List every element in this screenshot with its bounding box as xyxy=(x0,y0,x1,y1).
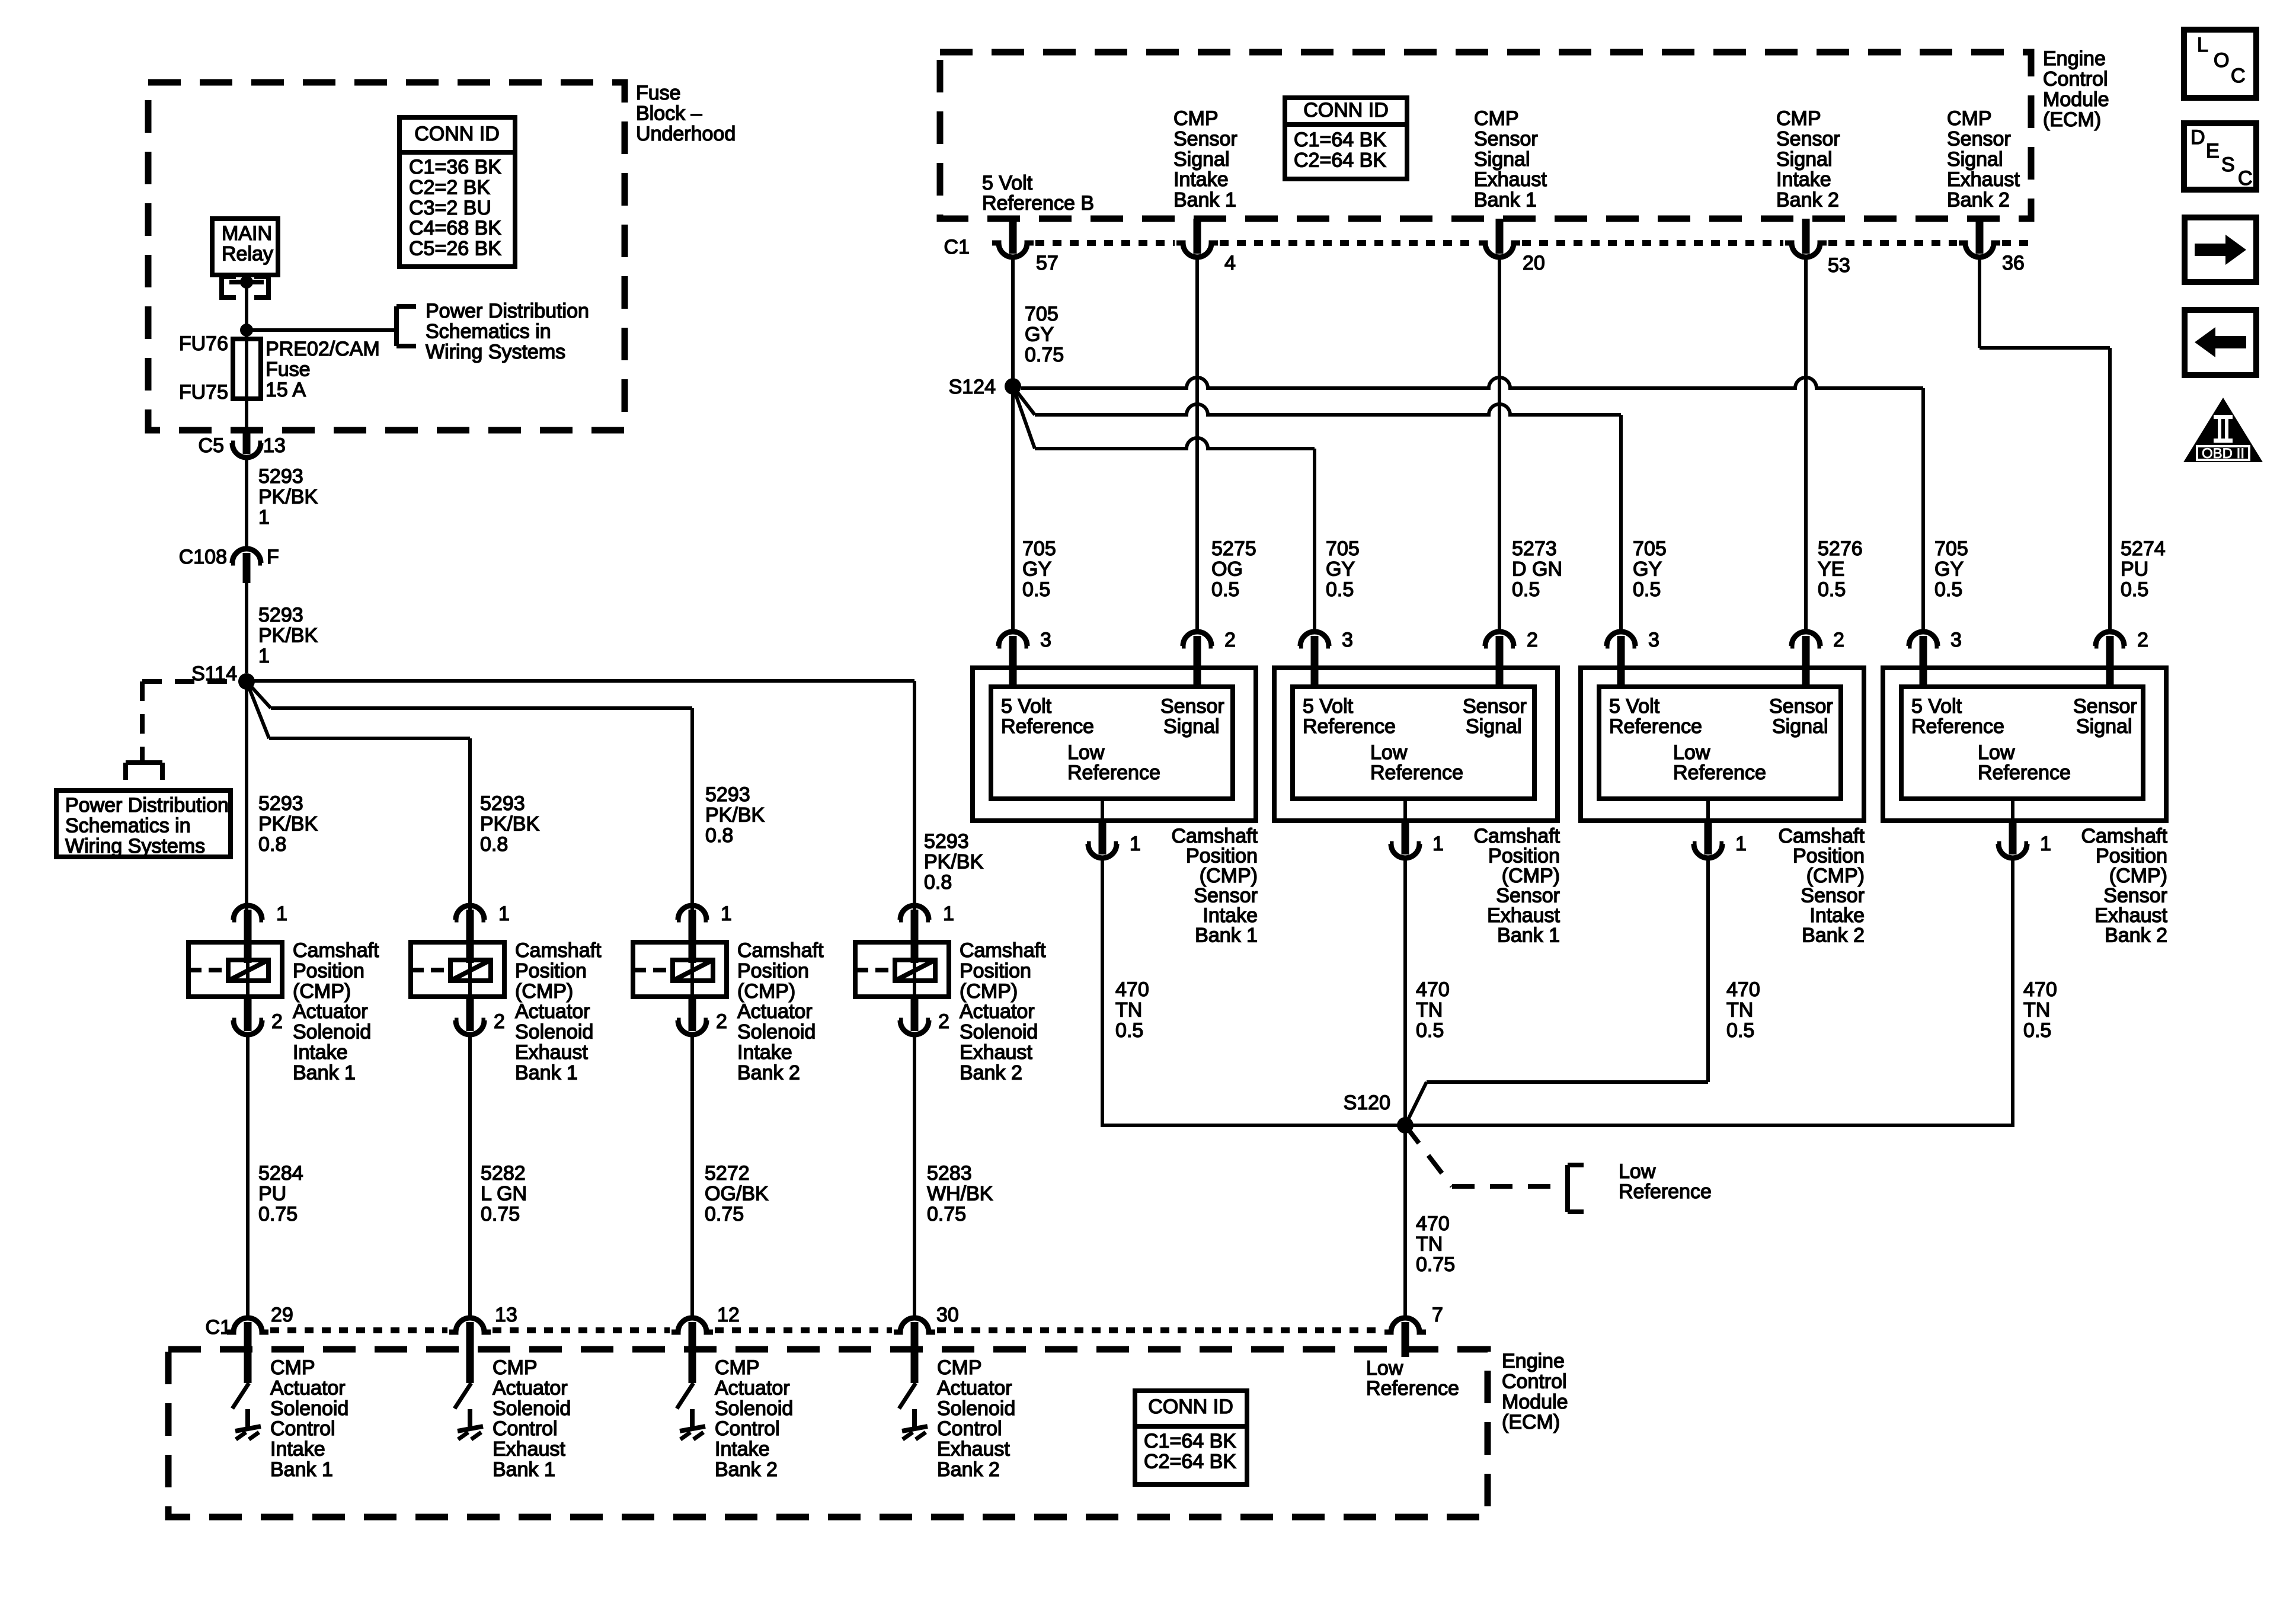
svg-text:Solenoid: Solenoid xyxy=(493,1397,571,1420)
svg-text:53: 53 xyxy=(1828,254,1850,277)
svg-text:0.8: 0.8 xyxy=(924,871,952,894)
svg-text:C1: C1 xyxy=(206,1316,231,1339)
svg-text:Sensor: Sensor xyxy=(2073,695,2137,718)
svg-text:1: 1 xyxy=(1735,833,1747,855)
svg-text:Solenoid: Solenoid xyxy=(270,1397,348,1420)
svg-text:Camshaft: Camshaft xyxy=(1172,825,1258,847)
svg-text:Solenoid: Solenoid xyxy=(715,1397,793,1420)
svg-text:5293: 5293 xyxy=(705,783,750,806)
svg-text:C4=68 BK: C4=68 BK xyxy=(409,217,501,239)
svg-text:CONN ID: CONN ID xyxy=(414,123,500,145)
svg-text:Bank 2: Bank 2 xyxy=(715,1458,778,1481)
svg-text:C108: C108 xyxy=(179,546,227,568)
svg-text:C5: C5 xyxy=(199,434,224,457)
svg-text:D: D xyxy=(2191,126,2205,149)
svg-text:Block –: Block – xyxy=(636,102,702,124)
svg-text:7: 7 xyxy=(1432,1304,1443,1326)
svg-text:Exhaust: Exhaust xyxy=(2094,904,2167,927)
svg-text:Solenoid: Solenoid xyxy=(960,1021,1038,1044)
svg-text:2: 2 xyxy=(1833,629,1844,651)
svg-text:(CMP): (CMP) xyxy=(737,980,795,1003)
svg-text:Bank 1: Bank 1 xyxy=(1497,924,1560,947)
svg-text:FU76: FU76 xyxy=(179,332,228,355)
svg-text:Bank 2: Bank 2 xyxy=(1776,189,1839,212)
svg-text:705: 705 xyxy=(1025,303,1059,325)
svg-text:Low: Low xyxy=(1673,741,1710,764)
svg-text:Actuator: Actuator xyxy=(715,1377,790,1399)
svg-text:Camshaft: Camshaft xyxy=(1779,825,1865,847)
svg-text:C1=64 BK: C1=64 BK xyxy=(1294,129,1386,151)
svg-text:Position: Position xyxy=(737,959,809,982)
svg-text:C5=26 BK: C5=26 BK xyxy=(409,238,501,260)
svg-text:1: 1 xyxy=(498,902,510,925)
svg-text:0.75: 0.75 xyxy=(481,1203,520,1225)
svg-text:1: 1 xyxy=(1432,833,1444,855)
svg-text:0.75: 0.75 xyxy=(927,1203,966,1225)
svg-text:0.5: 0.5 xyxy=(1211,578,1239,601)
svg-text:Low: Low xyxy=(1370,741,1408,764)
svg-text:GY: GY xyxy=(1022,558,1051,580)
svg-text:5 Volt: 5 Volt xyxy=(1911,695,1962,718)
svg-text:Actuator: Actuator xyxy=(293,1000,368,1023)
svg-text:Exhaust: Exhaust xyxy=(1947,168,2020,191)
svg-text:0.75: 0.75 xyxy=(1025,344,1064,366)
svg-text:2: 2 xyxy=(716,1010,727,1033)
svg-text:5 Volt: 5 Volt xyxy=(1303,695,1354,718)
svg-text:Reference: Reference xyxy=(1978,761,2071,784)
svg-text:YE: YE xyxy=(1818,558,1844,580)
svg-text:5274: 5274 xyxy=(2121,537,2166,560)
svg-text:WH/BK: WH/BK xyxy=(927,1182,993,1205)
svg-text:29: 29 xyxy=(271,1304,293,1326)
svg-text:Sensor: Sensor xyxy=(1947,127,2011,150)
svg-text:Solenoid: Solenoid xyxy=(937,1397,1015,1420)
svg-text:C2=64 BK: C2=64 BK xyxy=(1144,1450,1236,1473)
svg-text:Actuator: Actuator xyxy=(493,1377,568,1399)
svg-text:0.75: 0.75 xyxy=(258,1203,298,1225)
svg-text:Actuator: Actuator xyxy=(515,1000,590,1023)
svg-text:470: 470 xyxy=(1726,978,1760,1001)
svg-text:(ECM): (ECM) xyxy=(2043,108,2101,131)
svg-text:1: 1 xyxy=(276,902,287,925)
svg-text:5284: 5284 xyxy=(258,1162,303,1185)
svg-text:Signal: Signal xyxy=(1776,148,1833,171)
svg-text:Position: Position xyxy=(2096,845,2167,868)
svg-text:OG: OG xyxy=(1211,558,1243,580)
svg-text:Intake: Intake xyxy=(737,1041,792,1064)
svg-text:Bank 1: Bank 1 xyxy=(293,1061,356,1084)
svg-text:0.5: 0.5 xyxy=(1633,578,1661,601)
svg-text:Wiring Systems: Wiring Systems xyxy=(65,835,205,857)
svg-text:PK/BK: PK/BK xyxy=(480,812,539,835)
svg-text:C1=36 BK: C1=36 BK xyxy=(409,156,501,178)
svg-text:Intake: Intake xyxy=(293,1041,348,1064)
svg-text:3: 3 xyxy=(1040,629,1051,651)
svg-text:Sensor: Sensor xyxy=(1496,885,1560,907)
svg-text:Power Distribution: Power Distribution xyxy=(426,300,589,322)
svg-text:5282: 5282 xyxy=(481,1162,526,1185)
svg-text:470: 470 xyxy=(1115,978,1149,1001)
svg-text:Intake: Intake xyxy=(1776,168,1831,191)
svg-text:PK/BK: PK/BK xyxy=(258,485,318,508)
svg-text:PK/BK: PK/BK xyxy=(258,624,318,647)
svg-text:36: 36 xyxy=(2002,252,2025,274)
svg-text:C3=2 BU: C3=2 BU xyxy=(409,197,491,219)
svg-text:Reference: Reference xyxy=(1911,715,2004,738)
svg-text:CMP: CMP xyxy=(1776,107,1821,130)
svg-text:Intake: Intake xyxy=(1809,904,1865,927)
svg-text:Camshaft: Camshaft xyxy=(515,939,602,962)
svg-text:Fuse: Fuse xyxy=(266,358,311,380)
svg-text:GY: GY xyxy=(1934,558,1964,580)
svg-text:0.5: 0.5 xyxy=(1115,1019,1143,1042)
svg-text:Position: Position xyxy=(1186,845,1258,868)
svg-text:Bank 2: Bank 2 xyxy=(2105,924,2167,947)
svg-text:Engine: Engine xyxy=(1502,1350,1565,1372)
svg-text:Control: Control xyxy=(937,1417,1002,1440)
svg-text:Position: Position xyxy=(1488,845,1560,868)
svg-text:C: C xyxy=(2231,65,2246,87)
svg-text:Underhood: Underhood xyxy=(636,123,736,145)
svg-text:CMP: CMP xyxy=(1947,107,1992,130)
svg-text:Sensor: Sensor xyxy=(1776,127,1840,150)
svg-text:1: 1 xyxy=(1130,833,1141,855)
svg-text:5293: 5293 xyxy=(924,830,969,853)
svg-text:Intake: Intake xyxy=(270,1438,325,1461)
svg-text:Wiring Systems: Wiring Systems xyxy=(426,341,565,363)
svg-text:3: 3 xyxy=(1950,629,1962,651)
svg-text:705: 705 xyxy=(1022,537,1056,560)
svg-text:E: E xyxy=(2206,140,2220,162)
svg-text:C2=2 BK: C2=2 BK xyxy=(409,176,490,199)
svg-text:0.5: 0.5 xyxy=(1326,578,1354,601)
svg-text:0.75: 0.75 xyxy=(1416,1253,1455,1276)
svg-text:30: 30 xyxy=(936,1304,959,1326)
svg-text:Relay: Relay xyxy=(222,242,273,265)
svg-text:CMP: CMP xyxy=(937,1356,982,1379)
svg-text:0.75: 0.75 xyxy=(705,1203,744,1225)
svg-text:1: 1 xyxy=(258,645,270,667)
svg-text:Bank 2: Bank 2 xyxy=(937,1458,1000,1481)
svg-text:Schematics in: Schematics in xyxy=(65,814,191,837)
svg-text:TN: TN xyxy=(2023,998,2050,1021)
svg-text:2: 2 xyxy=(1224,629,1236,651)
svg-text:Sensor: Sensor xyxy=(2103,885,2167,907)
svg-text:(ECM): (ECM) xyxy=(1502,1411,1560,1433)
svg-text:Position: Position xyxy=(293,959,364,982)
svg-text:0.5: 0.5 xyxy=(1818,578,1846,601)
svg-text:PK/BK: PK/BK xyxy=(924,850,983,873)
svg-text:Control: Control xyxy=(1502,1370,1567,1393)
svg-text:C1: C1 xyxy=(944,236,970,258)
svg-text:Signal: Signal xyxy=(1163,715,1220,738)
svg-text:Exhaust: Exhaust xyxy=(937,1438,1010,1461)
svg-text:Actuator: Actuator xyxy=(960,1000,1035,1023)
svg-text:705: 705 xyxy=(1326,537,1360,560)
svg-text:1: 1 xyxy=(2040,833,2051,855)
svg-text:Bank 2: Bank 2 xyxy=(1947,189,2010,212)
svg-text:Reference: Reference xyxy=(1673,761,1766,784)
svg-text:0.5: 0.5 xyxy=(1726,1019,1754,1042)
svg-text:CMP: CMP xyxy=(715,1356,760,1379)
svg-text:PK/BK: PK/BK xyxy=(705,804,765,826)
svg-text:OBD II: OBD II xyxy=(2202,446,2244,462)
svg-text:5 Volt: 5 Volt xyxy=(1001,695,1052,718)
svg-text:5272: 5272 xyxy=(705,1162,750,1185)
svg-text:Exhaust: Exhaust xyxy=(1487,904,1560,927)
svg-text:5293: 5293 xyxy=(258,792,303,815)
svg-text:Camshaft: Camshaft xyxy=(960,939,1046,962)
svg-text:Control: Control xyxy=(715,1417,780,1440)
svg-text:Bank 1: Bank 1 xyxy=(1474,189,1537,212)
svg-text:470: 470 xyxy=(1416,1212,1450,1235)
svg-text:Reference: Reference xyxy=(1370,761,1463,784)
svg-text:Exhaust: Exhaust xyxy=(1474,168,1547,191)
svg-text:5275: 5275 xyxy=(1211,537,1256,560)
svg-text:1: 1 xyxy=(943,902,954,925)
svg-text:2: 2 xyxy=(938,1010,949,1033)
svg-text:PU: PU xyxy=(258,1182,286,1205)
svg-text:Low: Low xyxy=(1366,1357,1403,1380)
svg-text:GY: GY xyxy=(1326,558,1355,580)
svg-text:Control: Control xyxy=(2043,68,2108,90)
svg-text:Actuator: Actuator xyxy=(270,1377,346,1399)
svg-text:Exhaust: Exhaust xyxy=(515,1041,588,1064)
svg-text:0.8: 0.8 xyxy=(258,833,286,856)
svg-text:TN: TN xyxy=(1726,998,1753,1021)
svg-text:2: 2 xyxy=(494,1010,505,1033)
svg-text:Signal: Signal xyxy=(2076,715,2132,738)
svg-text:15 A: 15 A xyxy=(266,379,306,401)
svg-text:Sensor: Sensor xyxy=(1194,885,1258,907)
svg-text:Module: Module xyxy=(2043,88,2109,111)
svg-text:TN: TN xyxy=(1416,998,1443,1021)
svg-text:Bank 1: Bank 1 xyxy=(270,1458,333,1481)
svg-text:Solenoid: Solenoid xyxy=(293,1021,371,1044)
svg-text:Intake: Intake xyxy=(1173,168,1229,191)
svg-text:Sensor: Sensor xyxy=(1463,695,1527,718)
svg-text:470: 470 xyxy=(1416,978,1450,1001)
svg-text:S: S xyxy=(2221,153,2235,176)
svg-text:2: 2 xyxy=(2137,629,2148,651)
svg-text:Position: Position xyxy=(960,959,1031,982)
svg-text:Power Distribution: Power Distribution xyxy=(65,794,229,817)
svg-text:(CMP): (CMP) xyxy=(1200,865,1258,887)
svg-text:3: 3 xyxy=(1648,629,1659,651)
svg-text:Control: Control xyxy=(493,1417,558,1440)
svg-text:Camshaft: Camshaft xyxy=(1474,825,1560,847)
svg-text:CMP: CMP xyxy=(1173,107,1219,130)
svg-text:CONN ID: CONN ID xyxy=(1148,1396,1233,1418)
svg-text:5 Volt: 5 Volt xyxy=(1609,695,1660,718)
svg-text:Position: Position xyxy=(1793,845,1865,868)
svg-text:Bank 1: Bank 1 xyxy=(1195,924,1258,947)
svg-text:Camshaft: Camshaft xyxy=(293,939,379,962)
svg-text:OG/BK: OG/BK xyxy=(705,1182,769,1205)
svg-text:Bank 2: Bank 2 xyxy=(1802,924,1865,947)
svg-text:Exhaust: Exhaust xyxy=(960,1041,1032,1064)
svg-text:Solenoid: Solenoid xyxy=(737,1021,816,1044)
svg-text:57: 57 xyxy=(1036,252,1059,274)
svg-text:705: 705 xyxy=(1934,537,1968,560)
svg-text:(CMP): (CMP) xyxy=(2109,865,2167,887)
svg-text:TN: TN xyxy=(1115,998,1142,1021)
svg-text:5273: 5273 xyxy=(1512,537,1557,560)
svg-text:Camshaft: Camshaft xyxy=(737,939,824,962)
svg-text:0.5: 0.5 xyxy=(1416,1019,1444,1042)
svg-text:Actuator: Actuator xyxy=(937,1377,1012,1399)
svg-text:5 Volt: 5 Volt xyxy=(982,172,1033,194)
svg-text:Reference: Reference xyxy=(1067,761,1160,784)
svg-text:Signal: Signal xyxy=(1474,148,1530,171)
svg-text:CMP: CMP xyxy=(270,1356,315,1379)
svg-text:C1=64 BK: C1=64 BK xyxy=(1144,1430,1236,1452)
svg-text:470: 470 xyxy=(2023,978,2057,1001)
svg-text:L GN: L GN xyxy=(481,1182,527,1205)
svg-text:Reference: Reference xyxy=(1619,1180,1712,1203)
svg-text:Signal: Signal xyxy=(1947,148,2003,171)
svg-text:5276: 5276 xyxy=(1818,537,1863,560)
svg-text:Reference: Reference xyxy=(1303,715,1396,738)
svg-text:Sensor: Sensor xyxy=(1173,127,1237,150)
svg-text:Bank 1: Bank 1 xyxy=(493,1458,555,1481)
svg-text:5293: 5293 xyxy=(258,604,303,626)
svg-text:PRE02/CAM: PRE02/CAM xyxy=(266,338,380,360)
svg-text:Reference: Reference xyxy=(1001,715,1094,738)
svg-text:Position: Position xyxy=(515,959,587,982)
svg-text:Bank 1: Bank 1 xyxy=(515,1061,578,1084)
svg-text:Schematics in: Schematics in xyxy=(426,320,551,343)
svg-text:Intake: Intake xyxy=(1203,904,1258,927)
svg-text:Reference: Reference xyxy=(1609,715,1702,738)
svg-text:(CMP): (CMP) xyxy=(1806,865,1865,887)
svg-text:Reference B: Reference B xyxy=(982,192,1094,215)
svg-text:0.5: 0.5 xyxy=(1022,578,1050,601)
svg-text:1: 1 xyxy=(721,902,732,925)
svg-text:(CMP): (CMP) xyxy=(960,980,1018,1003)
svg-text:Bank 1: Bank 1 xyxy=(1173,189,1236,212)
svg-text:0.5: 0.5 xyxy=(1512,578,1540,601)
svg-text:0.5: 0.5 xyxy=(2121,578,2148,601)
svg-text:Sensor: Sensor xyxy=(1801,885,1865,907)
svg-text:Engine: Engine xyxy=(2043,47,2106,70)
svg-text:0.5: 0.5 xyxy=(1934,578,1962,601)
svg-text:Actuator: Actuator xyxy=(737,1000,813,1023)
svg-text:13: 13 xyxy=(263,434,286,457)
svg-text:C2=64 BK: C2=64 BK xyxy=(1294,149,1386,171)
svg-text:(CMP): (CMP) xyxy=(515,980,573,1003)
svg-text:12: 12 xyxy=(717,1304,740,1326)
svg-text:Signal: Signal xyxy=(1466,715,1522,738)
svg-text:FU75: FU75 xyxy=(179,381,228,404)
svg-text:3: 3 xyxy=(1342,629,1353,651)
svg-text:1: 1 xyxy=(258,506,270,529)
svg-text:MAIN: MAIN xyxy=(222,222,272,245)
svg-text:20: 20 xyxy=(1523,252,1545,274)
svg-text:CMP: CMP xyxy=(1474,107,1519,130)
svg-text:Signal: Signal xyxy=(1173,148,1230,171)
svg-text:Sensor: Sensor xyxy=(1160,695,1224,718)
svg-text:5283: 5283 xyxy=(927,1162,972,1185)
svg-text:705: 705 xyxy=(1633,537,1667,560)
svg-text:2: 2 xyxy=(1527,629,1538,651)
svg-text:5293: 5293 xyxy=(480,792,525,815)
svg-text:O: O xyxy=(2214,49,2229,72)
svg-text:2: 2 xyxy=(271,1010,283,1033)
svg-text:Signal: Signal xyxy=(1772,715,1828,738)
svg-text:GY: GY xyxy=(1025,323,1054,345)
svg-text:0.8: 0.8 xyxy=(480,833,508,856)
svg-text:(CMP): (CMP) xyxy=(1502,865,1560,887)
svg-text:S124: S124 xyxy=(949,376,996,398)
svg-text:PU: PU xyxy=(2121,558,2148,580)
svg-text:4: 4 xyxy=(1224,252,1236,274)
svg-text:13: 13 xyxy=(495,1304,517,1326)
svg-text:Control: Control xyxy=(270,1417,335,1440)
svg-text:S120: S120 xyxy=(1344,1092,1390,1114)
svg-text:Exhaust: Exhaust xyxy=(493,1438,565,1461)
svg-text:Camshaft: Camshaft xyxy=(2081,825,2168,847)
svg-text:Sensor: Sensor xyxy=(1474,127,1538,150)
svg-text:D GN: D GN xyxy=(1512,558,1562,580)
svg-text:Reference: Reference xyxy=(1366,1377,1459,1400)
svg-text:L: L xyxy=(2197,34,2208,56)
svg-text:Low: Low xyxy=(1067,741,1105,764)
svg-text:Intake: Intake xyxy=(715,1438,770,1461)
svg-text:F: F xyxy=(267,546,279,568)
svg-text:C: C xyxy=(2238,167,2253,190)
svg-text:Solenoid: Solenoid xyxy=(515,1021,593,1044)
svg-text:CMP: CMP xyxy=(493,1356,538,1379)
svg-text:Low: Low xyxy=(1619,1160,1656,1183)
svg-text:5293: 5293 xyxy=(258,465,303,488)
svg-text:GY: GY xyxy=(1633,558,1662,580)
svg-text:TN: TN xyxy=(1416,1233,1443,1255)
svg-text:Sensor: Sensor xyxy=(1769,695,1833,718)
svg-text:Bank 2: Bank 2 xyxy=(737,1061,800,1084)
svg-text:Fuse: Fuse xyxy=(636,82,681,104)
svg-text:Bank 2: Bank 2 xyxy=(960,1061,1022,1084)
svg-text:(CMP): (CMP) xyxy=(293,980,351,1003)
svg-text:CONN ID: CONN ID xyxy=(1303,99,1389,121)
svg-text:0.8: 0.8 xyxy=(705,824,733,847)
svg-text:0.5: 0.5 xyxy=(2023,1019,2051,1042)
svg-text:PK/BK: PK/BK xyxy=(258,812,318,835)
svg-text:Module: Module xyxy=(1502,1391,1568,1413)
svg-text:Low: Low xyxy=(1978,741,2015,764)
